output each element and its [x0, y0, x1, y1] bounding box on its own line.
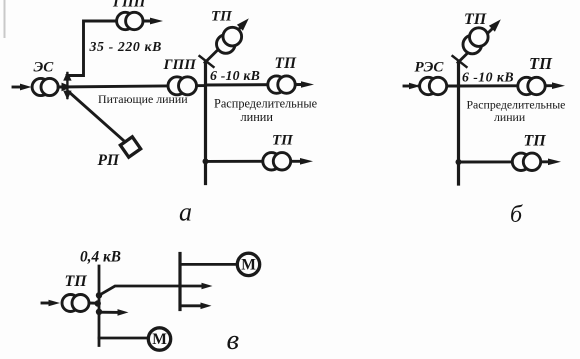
- wire: distribution line right TP5: [459, 84, 554, 87]
- wire: top feeder from node corner up to GPP1: [67, 21, 150, 76]
- transformer GPP2: [168, 77, 197, 95]
- svg-text:ГПП: ГПП: [163, 57, 198, 73]
- wire: distribution line lower TP3: [206, 160, 302, 163]
- transformer TP6: [512, 153, 540, 170]
- arrow out of TP5: [552, 82, 565, 89]
- svg-text:ТП: ТП: [464, 11, 487, 28]
- wire: TP7 to bus V1: [88, 302, 99, 305]
- transformer TP2: [268, 76, 295, 93]
- arrow into RES (source): [404, 83, 421, 90]
- bus V2 (distribution panel): [178, 254, 181, 310]
- wire: diagonal feeder to TP4: [458, 28, 493, 63]
- scan artifact line (left edge): [4, 0, 6, 37]
- svg-text:0,4 кВ: 0,4 кВ: [80, 249, 121, 266]
- wire: riser from bus V1 to panel line: [99, 286, 203, 295]
- transformer TP4 (diagonal): [463, 28, 488, 54]
- node on bus B (lower branch): [456, 159, 462, 165]
- bus A (6-10 kV busbar): [204, 62, 207, 184]
- svg-text:линии: линии: [241, 110, 274, 124]
- transformer ES: [32, 78, 58, 95]
- svg-text:ТП: ТП: [211, 9, 233, 25]
- svg-text:ЭС: ЭС: [34, 60, 55, 76]
- transformer TP3: [263, 153, 291, 170]
- arrow out of TP1: [237, 18, 249, 30]
- svg-text:РП: РП: [98, 152, 120, 169]
- svg-text:а: а: [179, 198, 192, 227]
- tick at bus B top: [453, 56, 467, 67]
- wire: RES to bus B: [419, 85, 459, 88]
- wire: distribution line right TP2: [206, 83, 303, 86]
- arrow into ES (source): [13, 84, 32, 91]
- transformer TP1 (diagonal): [217, 27, 242, 53]
- node on bus A (lower branch): [203, 158, 209, 164]
- arrow into TP7 (source): [42, 300, 60, 307]
- tick at bus A top: [200, 56, 214, 67]
- arrow branch from bus V1: [99, 309, 129, 316]
- svg-text:ТП: ТП: [275, 55, 297, 72]
- svg-text:РЭС: РЭС: [415, 60, 445, 76]
- wire: bottom branch to motor M2: [99, 337, 148, 340]
- RP diamond: [120, 137, 140, 157]
- wire: main feeder ES to bus A: [58, 86, 205, 87]
- arrow out of TP2: [301, 81, 314, 88]
- transformer TP7: [62, 295, 89, 312]
- wire: distribution line lower TP6: [459, 160, 550, 163]
- svg-text:6 -10 кВ: 6 -10 кВ: [210, 68, 260, 83]
- arrow out of GPP1: [143, 18, 163, 25]
- svg-text:ТП: ТП: [65, 273, 88, 290]
- arrow at end of panel line: [202, 283, 213, 290]
- svg-text:линии: линии: [494, 110, 526, 124]
- wire: top branch to motor M1: [180, 263, 237, 266]
- svg-text:ТП: ТП: [524, 133, 547, 150]
- transformer GPP1 (top): [117, 12, 143, 29]
- arrow out of TP6: [548, 159, 561, 166]
- wire: diagonal feeder to TP1: [205, 28, 241, 63]
- svg-text:ТП: ТП: [272, 133, 294, 149]
- arrow out of TP4: [489, 19, 501, 31]
- svg-text:6 -10 кВ: 6 -10 кВ: [462, 70, 514, 85]
- transformer TP5: [518, 77, 545, 94]
- node dots on bus V1: [95, 292, 103, 315]
- bus V1 (0.4 kV busbar): [98, 266, 101, 346]
- svg-text:35 - 220 кВ: 35 - 220 кВ: [89, 39, 162, 54]
- bus B (6-10 kV busbar): [457, 62, 460, 184]
- svg-text:б: б: [510, 202, 523, 228]
- transformer RES: [420, 77, 447, 94]
- node arrows at ES junction: [62, 72, 73, 100]
- svg-text:Распределительные: Распределительные: [214, 97, 318, 111]
- svg-text:М: М: [152, 331, 167, 348]
- svg-text:ГПП: ГПП: [112, 0, 147, 11]
- svg-text:в: в: [227, 324, 240, 356]
- arrow out of TP3: [300, 158, 313, 165]
- wire: feeder to RP (diagonal): [69, 92, 123, 140]
- motor M1: [237, 253, 259, 275]
- svg-text:М: М: [241, 257, 256, 274]
- svg-text:ТП: ТП: [529, 54, 553, 73]
- motor M2: [148, 328, 170, 350]
- arrow branch from bus V2 (lower): [180, 303, 212, 310]
